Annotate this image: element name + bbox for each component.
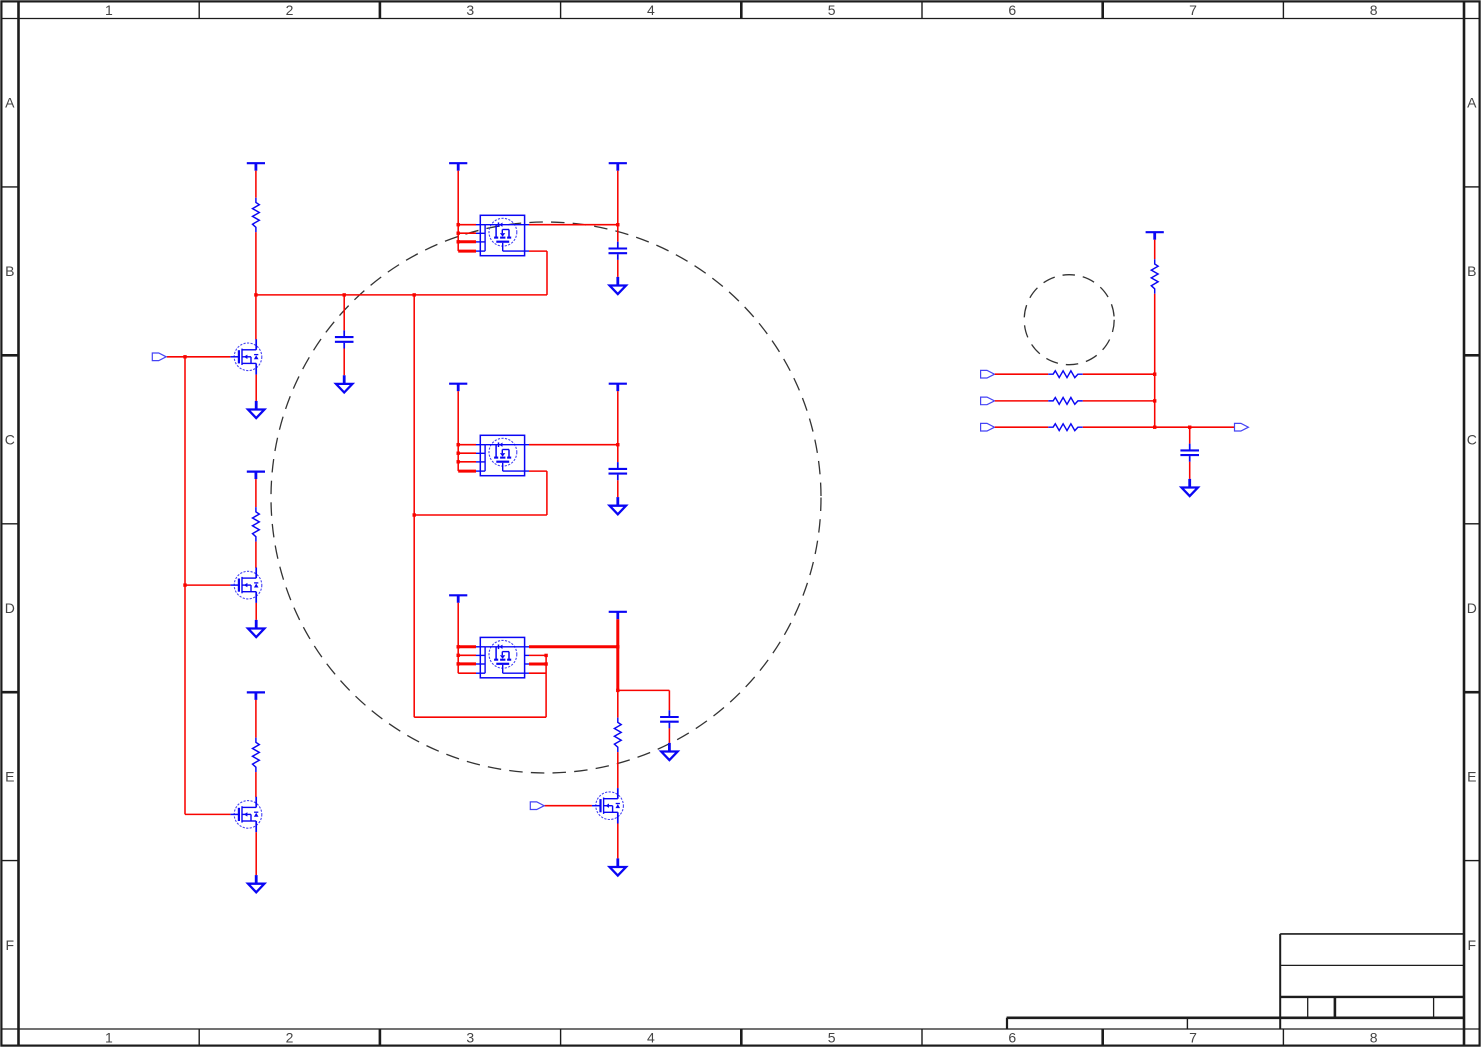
- wire C3 to ground: [617, 480, 619, 497]
- ground below C1: [336, 375, 352, 392]
- junction U2 pin2: [457, 452, 460, 455]
- svg-text:3: 3: [466, 2, 474, 18]
- wire R6 to summing node: [1083, 373, 1155, 375]
- wire main node to R4: [617, 690, 619, 717]
- resistor R8: [1048, 424, 1083, 431]
- transistor Q2: [230, 568, 261, 603]
- wire R8 to summing node: [1083, 426, 1155, 428]
- power VCC tap (U1): [449, 163, 467, 171]
- wire U1 pin feed vertical: [457, 171, 459, 251]
- power VCC tap (C2): [609, 163, 627, 171]
- wire to C4: [618, 689, 670, 691]
- wire node to C5: [1189, 427, 1191, 443]
- wire gate bus to Q2 gate: [185, 584, 230, 586]
- wire U2 pin2: [458, 452, 476, 454]
- wire C5 to ground: [1189, 462, 1191, 479]
- junction node N1 at vertical riser: [413, 293, 416, 296]
- svg-text:F: F: [6, 937, 15, 953]
- svg-text:6: 6: [1008, 1030, 1016, 1046]
- svg-text:A: A: [1467, 95, 1477, 111]
- resistor R6: [1048, 371, 1083, 378]
- wire C4 drop: [668, 690, 670, 710]
- ground below Q4: [610, 858, 626, 875]
- wire C2 to ground: [617, 260, 619, 277]
- wire U3 pin1 (thick): [458, 645, 476, 648]
- wire port to R6: [995, 373, 1049, 375]
- junction node N1 at C1 branch: [343, 293, 346, 296]
- capacitor C5: [1180, 444, 1199, 462]
- resistor R3: [253, 738, 260, 773]
- wire U1 drain to C2 node: [529, 224, 618, 226]
- dashed highlight circle (large): [271, 222, 821, 773]
- svg-text:8: 8: [1370, 1030, 1378, 1046]
- resistor R7: [1048, 398, 1083, 405]
- capacitor C2: [609, 242, 628, 260]
- power VCC tap (R1): [247, 163, 265, 171]
- wire C4 to ground: [668, 728, 670, 743]
- svg-text:4: 4: [647, 1030, 655, 1046]
- wire U3 pin2: [458, 654, 476, 656]
- svg-text:7: 7: [1189, 1030, 1197, 1046]
- wire VCC to R5: [1154, 240, 1156, 260]
- wire U2 source return horizontal: [414, 514, 547, 516]
- wire U3 right pin4: [529, 672, 546, 674]
- wire VCC to C2: [617, 171, 619, 242]
- svg-text:C: C: [5, 432, 15, 448]
- port IN5: [981, 423, 995, 431]
- capacitor C4: [660, 710, 679, 728]
- wire U3 right pin2: [529, 654, 546, 656]
- MOSFET module U3: [476, 637, 529, 677]
- wire U2 drain to C3 node: [529, 444, 618, 446]
- wire port IN2 to Q4 gate: [545, 805, 592, 807]
- wire U3 right tie vertical: [545, 655, 547, 717]
- wire N1 to C1: [343, 295, 345, 330]
- port IN2: [530, 802, 544, 810]
- power VCC tap (R3): [247, 692, 265, 700]
- junction U1 pin3: [457, 240, 460, 243]
- wire R3 to Q3 drain: [255, 772, 257, 797]
- svg-text:5: 5: [828, 1030, 836, 1046]
- wire U3 pin4: [458, 672, 476, 674]
- wire U1 pin2: [458, 232, 476, 234]
- wire Q1 source to ground: [255, 375, 257, 401]
- svg-text:1: 1: [105, 1030, 113, 1046]
- junction summing node row 2: [1153, 399, 1156, 402]
- junction U1 pin2: [457, 232, 460, 235]
- capacitor C3: [609, 462, 628, 480]
- port OUT: [1235, 423, 1249, 431]
- svg-text:B: B: [1467, 263, 1476, 279]
- svg-text:2: 2: [286, 2, 294, 18]
- wire VCC to C3: [617, 391, 619, 462]
- ground below C2: [610, 277, 626, 294]
- wire port to R7: [995, 400, 1049, 402]
- wire U3 pin3 (thick): [458, 662, 476, 665]
- wire U2 pin1: [458, 444, 476, 446]
- port IN1: [152, 353, 166, 361]
- wire summing node to output port: [1155, 426, 1235, 428]
- wire gate bus to Q3 gate: [185, 813, 230, 815]
- svg-text:8: 8: [1370, 2, 1378, 18]
- wire Q3 source to ground: [255, 832, 257, 875]
- transistor Q4: [592, 788, 623, 823]
- wire U3 drain to main node (thick): [529, 645, 618, 648]
- resistor R5: [1151, 259, 1158, 294]
- power VCC tap (U3): [449, 595, 467, 603]
- wire U1 pin1: [458, 224, 476, 226]
- svg-text:4: 4: [647, 2, 655, 18]
- wire U2 pin feed vertical: [457, 391, 459, 471]
- junction U3 right tie top: [544, 654, 547, 657]
- wire C1 to ground: [343, 349, 345, 376]
- power VCC tap (U2): [449, 384, 467, 392]
- power VCC tap (R5): [1146, 232, 1164, 240]
- junction U2 pin3: [457, 460, 460, 463]
- wire U1 pin4 (thick): [458, 250, 476, 253]
- MOSFET module U1: [476, 215, 529, 255]
- power VCC tap (C3): [609, 384, 627, 392]
- wire U2 source return vertical: [546, 471, 548, 515]
- wire VCC main vertical (thick): [616, 619, 619, 690]
- wire U3 return horizontal: [414, 716, 546, 718]
- svg-text:C: C: [1467, 432, 1477, 448]
- wire R4 to Q4 drain: [617, 752, 619, 788]
- wire port to R8: [995, 426, 1049, 428]
- wire port IN1 to Q1 gate: [167, 356, 231, 358]
- junction U3 pin1: [457, 645, 460, 648]
- junction U3 right tie mid: [544, 662, 547, 665]
- ground below C4: [661, 743, 677, 760]
- svg-text:6: 6: [1008, 2, 1016, 18]
- junction C2 node: [616, 223, 619, 226]
- port IN4: [981, 397, 995, 405]
- title block: [1007, 934, 1464, 1029]
- ground below C3: [610, 497, 626, 514]
- svg-text:B: B: [5, 263, 14, 279]
- junction gate bus at Q2: [183, 583, 186, 586]
- wire Q4 source to ground: [617, 824, 619, 859]
- resistor R4: [614, 718, 621, 753]
- junction summing node row 1: [1153, 373, 1156, 376]
- ground below C5: [1182, 479, 1198, 496]
- wire Q2 source to ground: [255, 603, 257, 620]
- wire U1 source return vertical: [546, 251, 548, 295]
- wire VCC to R2: [255, 479, 257, 507]
- wire node N1 to Q1 drain: [255, 295, 257, 340]
- wire U2 source return to pin: [529, 470, 547, 472]
- wire R7 to summing node: [1083, 400, 1155, 402]
- wire VCC to R1: [255, 171, 257, 198]
- svg-text:7: 7: [1189, 2, 1197, 18]
- junction U2 pin1: [457, 443, 460, 446]
- junction main node at C4 branch: [616, 689, 619, 692]
- wire R2 to Q2 drain: [255, 542, 257, 568]
- junction riser at U2 return: [413, 513, 416, 516]
- svg-text:E: E: [1467, 768, 1476, 784]
- wire gate bus vertical: [184, 357, 186, 815]
- port IN3: [981, 370, 995, 378]
- svg-text:D: D: [1467, 600, 1477, 616]
- ground below Q2: [248, 620, 264, 637]
- svg-text:2: 2: [286, 1030, 294, 1046]
- svg-text:E: E: [5, 768, 14, 784]
- wire U2 pin4 (thick): [458, 470, 476, 473]
- svg-text:5: 5: [828, 2, 836, 18]
- junction main node at U3 drain: [616, 645, 619, 648]
- wire R1 to node N1: [255, 232, 257, 295]
- wire VCC to R3: [255, 700, 257, 738]
- MOSFET module U2: [476, 435, 529, 475]
- junction C3 node: [616, 443, 619, 446]
- wire vertical riser N1: [413, 295, 415, 717]
- resistor R2: [253, 507, 260, 541]
- junction U1 pin1: [457, 223, 460, 226]
- junction node N1 at R1/Q1: [254, 293, 257, 296]
- resistor R1: [253, 198, 260, 233]
- ground below Q1: [248, 401, 264, 418]
- ground below Q3: [248, 875, 264, 892]
- wire R5 to summing node: [1154, 294, 1156, 428]
- transistor Q3: [230, 797, 261, 832]
- junction U3 pin2: [457, 654, 460, 657]
- dashed highlight circle (small): [1024, 275, 1114, 365]
- svg-text:F: F: [1468, 937, 1477, 953]
- wire U2 pin3: [458, 461, 476, 463]
- wire U3 pin feed vertical: [457, 603, 459, 673]
- svg-text:1: 1: [105, 2, 113, 18]
- junction U3 pin3: [457, 662, 460, 665]
- junction at C5 branch: [1188, 426, 1191, 429]
- junction gate bus at Q1: [183, 355, 186, 358]
- transistor Q1: [230, 339, 261, 374]
- wire U1 source return to pin: [529, 250, 547, 252]
- junction summing node row 3: [1153, 426, 1156, 429]
- svg-text:3: 3: [466, 1030, 474, 1046]
- svg-text:D: D: [5, 600, 15, 616]
- wire U3 right pin3 (thick): [529, 663, 546, 666]
- svg-text:A: A: [5, 95, 15, 111]
- wire U1 pin3 (thick): [458, 240, 476, 243]
- wire node N1 horizontal bus: [256, 294, 547, 296]
- capacitor C1: [335, 330, 354, 348]
- power VCC tap (main): [609, 612, 627, 620]
- power VCC tap (R2): [247, 472, 265, 480]
